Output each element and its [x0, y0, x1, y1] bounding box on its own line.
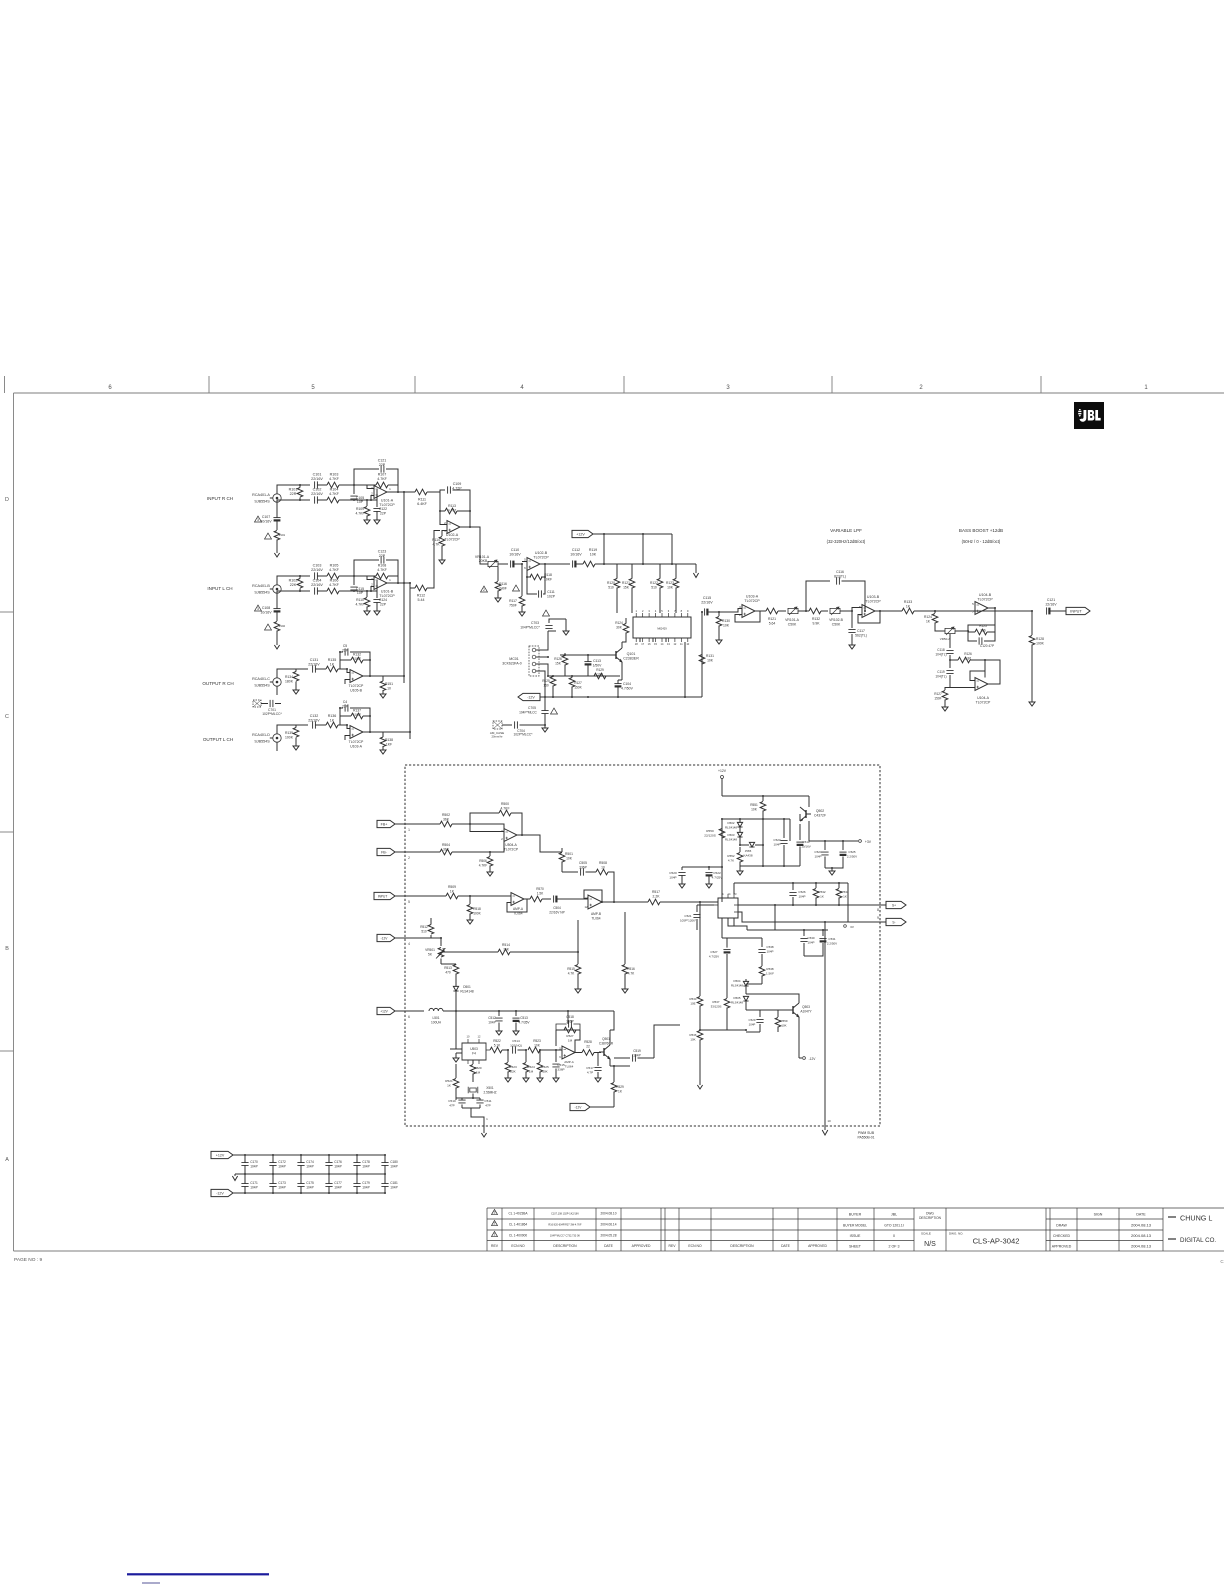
svg-text:102P*MLCC*: 102P*MLCC*: [262, 712, 282, 716]
svg-text:R116: R116: [499, 582, 507, 586]
capacitor C121b 22/16V: [1046, 607, 1048, 614]
wire row2 out: [404, 582, 410, 584]
svg-text:22R: 22R: [290, 492, 297, 496]
svg-text:GTO 1201.1I: GTO 1201.1I: [884, 1224, 904, 1228]
svg-text:104P: 104P: [633, 1053, 640, 1057]
svg-text:1: 1: [722, 892, 724, 896]
svg-text:R127: R127: [934, 692, 942, 696]
svg-text:RLS4148: RLS4148: [725, 825, 737, 829]
capacitor C511 47P: [476, 1100, 483, 1103]
svg-text:1M: 1M: [529, 1069, 534, 1073]
diode D505 RLS4148: [743, 996, 748, 1001]
power flag -12Vr: [803, 1057, 806, 1060]
svg-text:2004.08.13: 2004.08.13: [1131, 1244, 1152, 1249]
svg-text:22/16V: 22/16V: [1045, 602, 1057, 606]
svg-text:4: 4: [655, 609, 657, 613]
resistor R135 1K: [326, 666, 338, 672]
svg-text:R121: R121: [622, 581, 630, 585]
svg-text:12: 12: [584, 905, 588, 909]
svg-text:1K: 1K: [447, 1083, 452, 1087]
wire sub loop: [722, 818, 790, 820]
capacitor C117 562(TL): [851, 611, 853, 628]
svg-text:R501: R501: [565, 852, 573, 856]
svg-text:2.2/50V: 2.2/50V: [847, 854, 857, 858]
svg-text:10/16V: 10/16V: [570, 552, 582, 556]
ground: [697, 1085, 702, 1089]
svg-text:TL072CP: TL072CP: [976, 700, 991, 704]
resistor R523 10K: [528, 1047, 540, 1053]
svg-text:R107: R107: [378, 473, 387, 477]
svg-text:U101-B: U101-B: [381, 590, 394, 594]
capacitor C523 104P: [783, 819, 785, 838]
resistor R137 10KF feedback: [340, 708, 351, 716]
zener D505 KA438: [739, 841, 741, 845]
svg-text:VR101-A: VR101-A: [785, 618, 799, 622]
svg-text:R500: R500: [501, 802, 509, 806]
resistor R528 22: [575, 1052, 582, 1054]
svg-text:10: 10: [601, 865, 605, 869]
wire: [296, 668, 308, 670]
output flag 9: [886, 918, 906, 925]
wire DIP right drop: [701, 612, 703, 697]
wire: [339, 575, 354, 577]
wire top rail: [300, 484, 310, 486]
output jack RCA401-D: [273, 734, 281, 742]
svg-text:C526: C526: [798, 890, 806, 894]
svg-text:D502: D502: [728, 821, 735, 825]
svg-text:5.1K: 5.1K: [494, 1043, 501, 1047]
ground: [380, 750, 386, 754]
svg-text:R109: R109: [356, 507, 364, 511]
ground: [293, 690, 299, 694]
power flag +3V: [859, 840, 862, 843]
svg-text:SJB554S: SJB554S: [254, 740, 270, 744]
svg-text:2: 2: [483, 588, 485, 592]
op-amp U103-A TL072CP: [742, 605, 755, 618]
resistor R538 1.5KF: [761, 962, 763, 966]
row tick B/A: [0, 1050, 14, 1052]
svg-text:4.7KF: 4.7KF: [329, 568, 340, 572]
svg-text:150: 150: [543, 683, 549, 687]
svg-text:4.7KF: 4.7KF: [479, 863, 488, 867]
svg-text:336P: 336P: [566, 1019, 573, 1023]
resistor R108 4.7KF feedback: [376, 573, 388, 579]
wire amp minus input: [345, 736, 350, 741]
op-amp U506-A: [588, 895, 602, 909]
wire out: [875, 610, 902, 612]
wire: [317, 499, 327, 501]
svg-text:Q502: Q502: [816, 809, 824, 813]
svg-text:104(TL): 104(TL): [935, 674, 946, 678]
wire bottom rail: [300, 499, 310, 501]
wire +12V rail: [593, 533, 672, 535]
resistor R514 75K: [441, 951, 447, 953]
svg-text:R550: R550: [706, 829, 714, 833]
svg-text:R520: R520: [474, 1066, 482, 1070]
capacitor C115 22/16V: [702, 611, 703, 613]
wire: [315, 724, 326, 726]
svg-text:1K: 1K: [843, 894, 847, 898]
svg-text:4.7K: 4.7K: [628, 971, 635, 975]
capacitor C132 22/16V: [313, 721, 316, 728]
svg-text:20KB: 20KB: [479, 559, 488, 563]
svg-text:8: 8: [877, 908, 879, 912]
svg-text:R504: R504: [442, 843, 450, 847]
warning triangle 2: [481, 586, 488, 592]
svg-text:C118: C118: [937, 648, 945, 652]
PWM sub-board dashed outline: [405, 765, 880, 1126]
svg-text:R129: R129: [596, 668, 604, 672]
svg-text:3: 3: [648, 609, 650, 613]
resistor R527 1M loop: [564, 1027, 576, 1033]
svg-text:R506: R506: [479, 859, 487, 863]
capacitor C527 4.7/25V: [723, 949, 730, 951]
svg-text:R124: R124: [615, 621, 623, 625]
input flag FB+: [377, 820, 395, 827]
ground: [496, 1031, 502, 1035]
wire op-amp out: [363, 731, 383, 733]
resistor R138 1KF: [382, 732, 384, 737]
op-amp U103-B TL072CP: [862, 605, 875, 618]
svg-text:180K: 180K: [285, 679, 294, 683]
svg-text:1K: 1K: [926, 619, 931, 623]
svg-text:2: 2: [371, 492, 373, 496]
svg-text:C524: C524: [814, 850, 822, 854]
wire: [431, 938, 441, 946]
svg-text:C122: C122: [379, 507, 387, 511]
svg-text:5.64: 5.64: [769, 621, 776, 625]
svg-text:2: 2: [919, 385, 923, 391]
svg-text:22/16V: 22/16V: [311, 583, 323, 587]
wire to bus: [383, 675, 404, 677]
page border frame top line: [14, 392, 1224, 394]
ground: [374, 611, 380, 615]
svg-text:-12V: -12V: [381, 936, 389, 940]
capacitor C174 104P: [300, 1155, 302, 1163]
resistor R129 10K h: [594, 673, 606, 679]
svg-text:SHEET: SHEET: [849, 1245, 862, 1249]
capacitor C517 4.7P: [598, 1053, 601, 1067]
ground: [595, 1078, 601, 1082]
capacitor C176 104P: [328, 1155, 330, 1163]
resistor R121b 5.64: [755, 610, 766, 612]
svg-text:10KF: 10KF: [353, 657, 361, 661]
svg-text:Q503: Q503: [802, 1005, 810, 1009]
svg-text:D: D: [5, 497, 9, 503]
svg-text:2.56MHZ: 2.56MHZ: [483, 1090, 496, 1094]
svg-text:356: 356: [980, 628, 986, 632]
svg-text:104P: 104P: [306, 1186, 313, 1190]
svg-text:APPROVED: APPROVED: [632, 1244, 651, 1248]
svg-text:3: 3: [257, 518, 259, 522]
svg-text:C5: C5: [343, 644, 347, 648]
svg-text:C518: C518: [566, 1015, 574, 1019]
svg-text:6: 6: [108, 385, 112, 391]
svg-text:INPUT: INPUT: [1070, 609, 1082, 613]
svg-text:22/16V: 22/16V: [311, 492, 323, 496]
svg-text:4: 4: [408, 942, 410, 946]
IC U101 DIP: [633, 617, 691, 638]
capacitor C113 1/50V: [584, 661, 591, 663]
svg-text:2004.06.14: 2004.06.14: [601, 1223, 617, 1227]
svg-text:C173: C173: [278, 1181, 286, 1185]
svg-text:2004.08.10: 2004.08.10: [601, 1212, 617, 1216]
power flag +12V: [572, 530, 593, 537]
wire: [317, 575, 327, 577]
svg-text:C2383ER: C2383ER: [623, 656, 639, 660]
svg-text:R136: R136: [328, 714, 337, 718]
svg-text:DWG: DWG: [926, 1212, 934, 1216]
svg-text:5.44: 5.44: [418, 598, 425, 602]
svg-text:ISSUE: ISSUE: [850, 1234, 861, 1238]
svg-text:R532: R532: [818, 890, 826, 894]
wire +12V drops: [603, 534, 605, 564]
resistor R126b 5.86: [950, 659, 958, 661]
svg-text:36K: 36K: [443, 847, 450, 851]
resistor R506 4.7KF: [489, 852, 491, 856]
company name DIGITAL CO: [1168, 1238, 1176, 1240]
wire IC pins down: [721, 918, 723, 938]
svg-text:C512: C512: [488, 1016, 496, 1020]
svg-text:C705: C705: [528, 706, 536, 710]
svg-text:R111: R111: [418, 498, 426, 502]
svg-text:5.86: 5.86: [965, 656, 971, 660]
svg-text:R529: R529: [616, 1085, 624, 1089]
svg-text:100UH: 100UH: [431, 1020, 442, 1024]
svg-text:22/16V: 22/16V: [311, 568, 323, 572]
svg-text:X501: X501: [486, 1086, 494, 1090]
svg-text:1KF: 1KF: [386, 742, 392, 746]
svg-text:4.7KF: 4.7KF: [329, 583, 340, 587]
svg-text:-12V: -12V: [809, 1057, 817, 1061]
svg-text:+3V: +3V: [865, 840, 872, 844]
capacitor C111 102P feedback: [543, 577, 545, 594]
svg-text:+12V: +12V: [380, 1009, 388, 1013]
wire feedback: [460, 511, 470, 527]
svg-text:U101-A: U101-A: [381, 499, 394, 503]
svg-text:R133: R133: [904, 600, 912, 604]
wire 3V tap: [847, 883, 849, 922]
svg-text:6.4KF: 6.4KF: [417, 502, 427, 506]
wire feedback U103-A: [735, 611, 760, 622]
svg-text:C514: C514: [512, 1039, 520, 1043]
svg-text:C517: C517: [586, 1066, 594, 1070]
svg-text:C511: C511: [484, 1099, 491, 1103]
input jack RCA401-B: [273, 585, 281, 593]
wire mid vert: [774, 905, 776, 930]
svg-text:RLS4148: RLS4148: [725, 837, 737, 841]
wire bus right: [409, 583, 411, 739]
svg-text:-12V: -12V: [216, 1191, 224, 1195]
transistor Q501 C3876GR: [603, 1048, 605, 1056]
resistor R516 4.7K: [624, 912, 626, 964]
svg-text:1K: 1K: [330, 662, 335, 666]
wire: [540, 563, 570, 565]
svg-text:TL072CP: TL072CP: [977, 597, 993, 601]
wire: [277, 669, 296, 674]
svg-text:+12V: +12V: [216, 1153, 225, 1157]
revision row 2: [492, 1220, 498, 1225]
svg-text:RLS4148: RLS4148: [731, 1000, 743, 1004]
svg-text:JBL: JBL: [891, 1213, 897, 1217]
svg-text:R151: R151: [385, 682, 393, 686]
svg-text:22P: 22P: [380, 602, 387, 606]
transistor Q101 C2383ER: [615, 651, 617, 659]
svg-text:104P: 104P: [334, 1186, 341, 1190]
output flag INPUT: [1066, 607, 1090, 614]
svg-text:4.7/25V: 4.7/25V: [709, 954, 719, 958]
svg-text:18: 18: [635, 642, 638, 646]
wire main vert: [721, 819, 723, 902]
svg-text:4.7K: 4.7K: [568, 971, 575, 975]
svg-text:REV: REV: [669, 1244, 677, 1248]
potentiometer VR103-A: [945, 628, 955, 633]
wire: [339, 484, 354, 486]
capacitor C116 823(TL) feedback: [806, 581, 830, 611]
svg-text:104P: 104P: [807, 940, 814, 944]
svg-text:5: 5: [661, 609, 663, 613]
resistor R136 1K: [326, 722, 338, 728]
wire op-amp output: [387, 491, 404, 493]
wire fbp link: [470, 824, 504, 832]
ground: [481, 1133, 486, 1137]
svg-text:510: 510: [651, 585, 657, 589]
svg-text:C179: C179: [362, 1181, 370, 1185]
inductor L101: [276, 521, 278, 530]
capacitor C538 104P: [761, 938, 763, 947]
svg-text:DESCRIPTION: DESCRIPTION: [730, 1244, 754, 1248]
svg-text:4.7KF: 4.7KF: [377, 477, 387, 481]
input flag -12Vin: [377, 934, 395, 941]
svg-text:TL072CP: TL072CP: [349, 684, 364, 688]
svg-text:4.72P: 4.72P: [452, 486, 462, 490]
capacitor C121 22P feedback: [354, 469, 379, 485]
capacitor C531 2.2/50V: [822, 930, 824, 936]
svg-text:R323: R323: [509, 1065, 517, 1069]
svg-text:R527: R527: [566, 1034, 574, 1038]
ground: [274, 645, 279, 649]
svg-text:104P: 104P: [278, 1165, 285, 1169]
svg-text:BASS BOOST +12dB: BASS BOOST +12dB: [959, 528, 1003, 533]
resistor R570 1.5K: [524, 898, 530, 900]
wire bottom rail: [300, 590, 310, 592]
svg-text:C178: C178: [362, 1160, 370, 1164]
svg-text:TL072CP: TL072CP: [533, 555, 549, 559]
resistor R500 4.7KF: [470, 813, 499, 824]
svg-text:C703: C703: [531, 621, 539, 625]
op-amp U101-B U101-B: [374, 577, 387, 590]
svg-text:47P: 47P: [449, 1103, 455, 1107]
svg-text:D501: D501: [463, 985, 471, 989]
svg-text:2 OF 3: 2 OF 3: [889, 1245, 900, 1249]
frame left line: [13, 393, 15, 1251]
svg-text:17: 17: [641, 642, 644, 646]
svg-text:C174: C174: [306, 1160, 314, 1164]
resistor R114 4.7K: [442, 531, 447, 537]
wire op-amp inputs: [354, 576, 374, 580]
svg-text:RLS4148: RLS4148: [460, 989, 474, 993]
resistor R107 4.7KF feedback: [376, 482, 388, 488]
svg-text:R536: R536: [690, 1033, 697, 1037]
svg-text:10K: 10K: [534, 1043, 541, 1047]
svg-text:10K: 10K: [723, 623, 730, 627]
svg-text:S+: S+: [892, 903, 896, 907]
resistor R134 180K: [295, 669, 297, 672]
ground: [495, 598, 501, 602]
ruler tick column 5/4: [414, 376, 416, 393]
wire U104A out: [985, 660, 1000, 684]
svg-text:22: 22: [586, 1044, 590, 1048]
svg-text:8: 8: [681, 609, 683, 613]
ruler tick left edge: [4, 376, 6, 393]
svg-text:R528: R528: [584, 1040, 592, 1044]
resistor R106 4.7KF: [327, 588, 339, 594]
potentiometer VR101-A C50K: [788, 608, 798, 613]
pot VR501 5K: [438, 948, 444, 958]
svg-text:L101: L101: [279, 533, 286, 537]
svg-text:9: 9: [877, 916, 879, 920]
capacitor C520 104P: [681, 875, 683, 878]
svg-text:C170: C170: [250, 1160, 258, 1164]
svg-text:SCALE: SCALE: [921, 1232, 931, 1236]
svg-text:10P: 10P: [357, 500, 364, 504]
svg-text:PAGE NO : 9: PAGE NO : 9: [14, 1257, 42, 1263]
svg-text:R110: R110: [356, 598, 364, 602]
svg-text:C522: C522: [713, 871, 721, 875]
svg-text:30K: 30K: [616, 625, 623, 629]
svg-text:10KF: 10KF: [353, 713, 361, 717]
svg-text:C513: C513: [520, 1016, 528, 1020]
svg-text:R512: R512: [420, 925, 428, 929]
svg-text:D503: D503: [728, 833, 735, 837]
svg-text:R514: R514: [502, 943, 510, 947]
wire top rail caps: [734, 882, 848, 884]
svg-text:TL072CP: TL072CP: [504, 847, 519, 851]
warning triangle 3: [255, 516, 262, 522]
ground: [824, 1126, 826, 1130]
svg-text:10/16V: 10/16V: [509, 552, 521, 556]
svg-text:15K: 15K: [623, 585, 630, 589]
capacitor C177 104P: [328, 1174, 330, 1184]
capacitor C104 4.7/50V: [614, 683, 621, 685]
svg-text:150K: 150K: [574, 685, 582, 689]
svg-text:A: A: [5, 1157, 9, 1163]
capacitor C173 104P: [272, 1174, 274, 1184]
warning triangle: [265, 533, 272, 539]
capacitor C172 104P: [272, 1155, 274, 1163]
resistor R323 22K: [507, 1050, 509, 1062]
output flag 8: [886, 901, 906, 908]
capacitor C529 104P: [746, 1009, 760, 1011]
svg-text:-12V: -12V: [527, 695, 535, 699]
svg-text:C: C: [5, 714, 9, 720]
svg-text:6: 6: [668, 609, 670, 613]
svg-text:9.9K: 9.9K: [813, 621, 821, 625]
svg-text:FB+: FB+: [381, 822, 388, 826]
svg-text:104(TL): 104(TL): [935, 652, 946, 656]
wire amp minus input: [345, 680, 350, 685]
diode D503 RLS4148: [737, 832, 742, 837]
wire to bus: [383, 731, 410, 733]
wire fb1: [968, 608, 995, 631]
svg-text:VR50-A: VR50-A: [940, 637, 951, 641]
resistor R122 510: [659, 564, 661, 579]
resistor R515 4.7K: [577, 920, 579, 964]
wire to arrow: [695, 564, 697, 573]
capacitor C171 104P: [244, 1174, 246, 1184]
svg-text:D504: D504: [734, 979, 741, 983]
wire jack to rails: [277, 576, 300, 581]
